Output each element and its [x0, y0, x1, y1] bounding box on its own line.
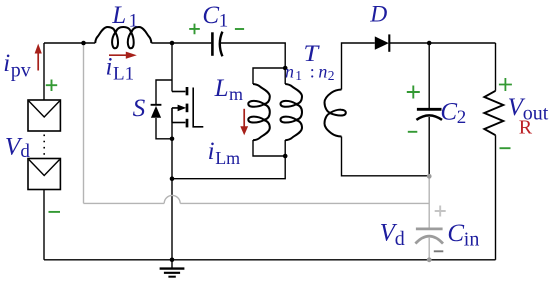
- wire C2 bottom lead: [428, 117, 430, 176]
- wire Vout branch bottom: [495, 135, 497, 260]
- node transformer bottom: [283, 154, 288, 159]
- wire Vout branch top: [495, 43, 497, 91]
- wire primary bottom lead: [172, 140, 285, 179]
- solar panel cell 2: [28, 159, 60, 190]
- wire C2 top lead: [428, 43, 430, 108]
- node ground: [170, 258, 175, 263]
- ground symbol: [160, 260, 185, 277]
- gray junction dot bottom: [427, 257, 432, 262]
- green plus at Vout: [499, 78, 512, 91]
- svg-text:1: 1: [219, 10, 229, 31]
- svg-text:L: L: [111, 2, 126, 29]
- wire mosfet source: [171, 123, 173, 260]
- wire diode branch bottom: [156, 118, 172, 139]
- junction node dots: [81, 41, 431, 262]
- node L1 right: [170, 41, 175, 46]
- current arrow i_pv: [35, 44, 42, 71]
- green minus at Vout: [500, 147, 511, 149]
- wire bottom rail: [44, 259, 496, 261]
- svg-text:Lm: Lm: [215, 148, 240, 168]
- svg-text:S: S: [133, 95, 146, 122]
- wire diode D to right: [389, 42, 495, 44]
- current arrow i_L1: [109, 52, 137, 59]
- resistor R zigzag: [484, 91, 503, 135]
- capacitor C2 plates: [417, 108, 442, 111]
- gray junction dot top: [427, 174, 432, 179]
- node input top: [81, 41, 86, 46]
- svg-text:m: m: [229, 84, 243, 104]
- svg-text:2: 2: [457, 107, 467, 128]
- svg-text:1: 1: [129, 11, 139, 32]
- wire diode branch top: [156, 80, 172, 105]
- body diode of S: [151, 104, 162, 106]
- wire PV bottom: [43, 190, 45, 260]
- capacitor C1 plates: [211, 32, 214, 56]
- svg-text:n: n: [318, 61, 327, 81]
- svg-text:pv: pv: [11, 59, 31, 81]
- dotted link between cells: [43, 135, 45, 157]
- inductor L1: [95, 27, 151, 48]
- svg-text:i: i: [106, 54, 113, 81]
- transformer T secondary winding: [325, 90, 346, 137]
- gray wire from input node down and across: [84, 44, 430, 203]
- solar panel cell 1: [28, 100, 60, 131]
- svg-text:C: C: [440, 98, 457, 125]
- svg-text:i: i: [3, 50, 10, 77]
- green plus at PV top: [46, 80, 57, 92]
- capacitor Cin plates (gray): [416, 228, 443, 231]
- wire PV top: [43, 43, 45, 100]
- wire top rail middle: [151, 42, 211, 44]
- mosfet S bulk arrow: [172, 108, 179, 123]
- svg-text:C: C: [447, 220, 464, 247]
- current arrow i_Lm: [240, 109, 248, 136]
- mosfet S source stub: [172, 122, 185, 124]
- transformer T primary winding: [281, 84, 303, 140]
- mosfet S gate: [193, 88, 203, 127]
- mosfet S drain stub: [172, 91, 185, 93]
- svg-text:2: 2: [328, 68, 335, 83]
- svg-text:n: n: [285, 61, 294, 81]
- gray plus sign: [435, 206, 446, 217]
- wire C1 to transformer: [219, 43, 285, 68]
- wire Lm stub: [253, 68, 285, 84]
- green minus at C2: [408, 131, 418, 133]
- svg-text:C: C: [202, 2, 219, 29]
- svg-text:L: L: [214, 75, 229, 102]
- svg-text:d: d: [20, 141, 30, 162]
- diode D: [375, 36, 389, 49]
- gray wire Cin branch: [428, 177, 430, 260]
- wire secondary top: [342, 43, 375, 90]
- green plus at C2: [407, 86, 420, 99]
- wire Lm bottom: [253, 140, 285, 156]
- green plus at C1: [189, 24, 200, 35]
- svg-text:R: R: [519, 116, 533, 138]
- inductor Lm: [248, 84, 269, 140]
- svg-text:L1: L1: [113, 64, 134, 85]
- wire secondary bottom: [342, 137, 430, 176]
- green minus at PV bottom: [49, 211, 61, 213]
- svg-text:in: in: [464, 228, 480, 250]
- green minus at C1: [235, 28, 244, 30]
- gray minus sign: [434, 250, 444, 252]
- svg-text:1: 1: [295, 68, 302, 83]
- wire primary top lead: [284, 68, 286, 84]
- svg-text:i: i: [208, 138, 215, 165]
- svg-text::: :: [310, 61, 315, 81]
- mosfet S channel bars: [186, 87, 189, 127]
- node primary return: [170, 176, 175, 181]
- node mosfet source join: [170, 137, 175, 142]
- svg-text:d: d: [395, 228, 405, 250]
- node diode out: [427, 41, 432, 46]
- wire mosfet drain: [171, 43, 173, 92]
- node transformer top: [283, 66, 288, 71]
- wire top rail left: [44, 42, 95, 44]
- svg-text:D: D: [369, 1, 387, 26]
